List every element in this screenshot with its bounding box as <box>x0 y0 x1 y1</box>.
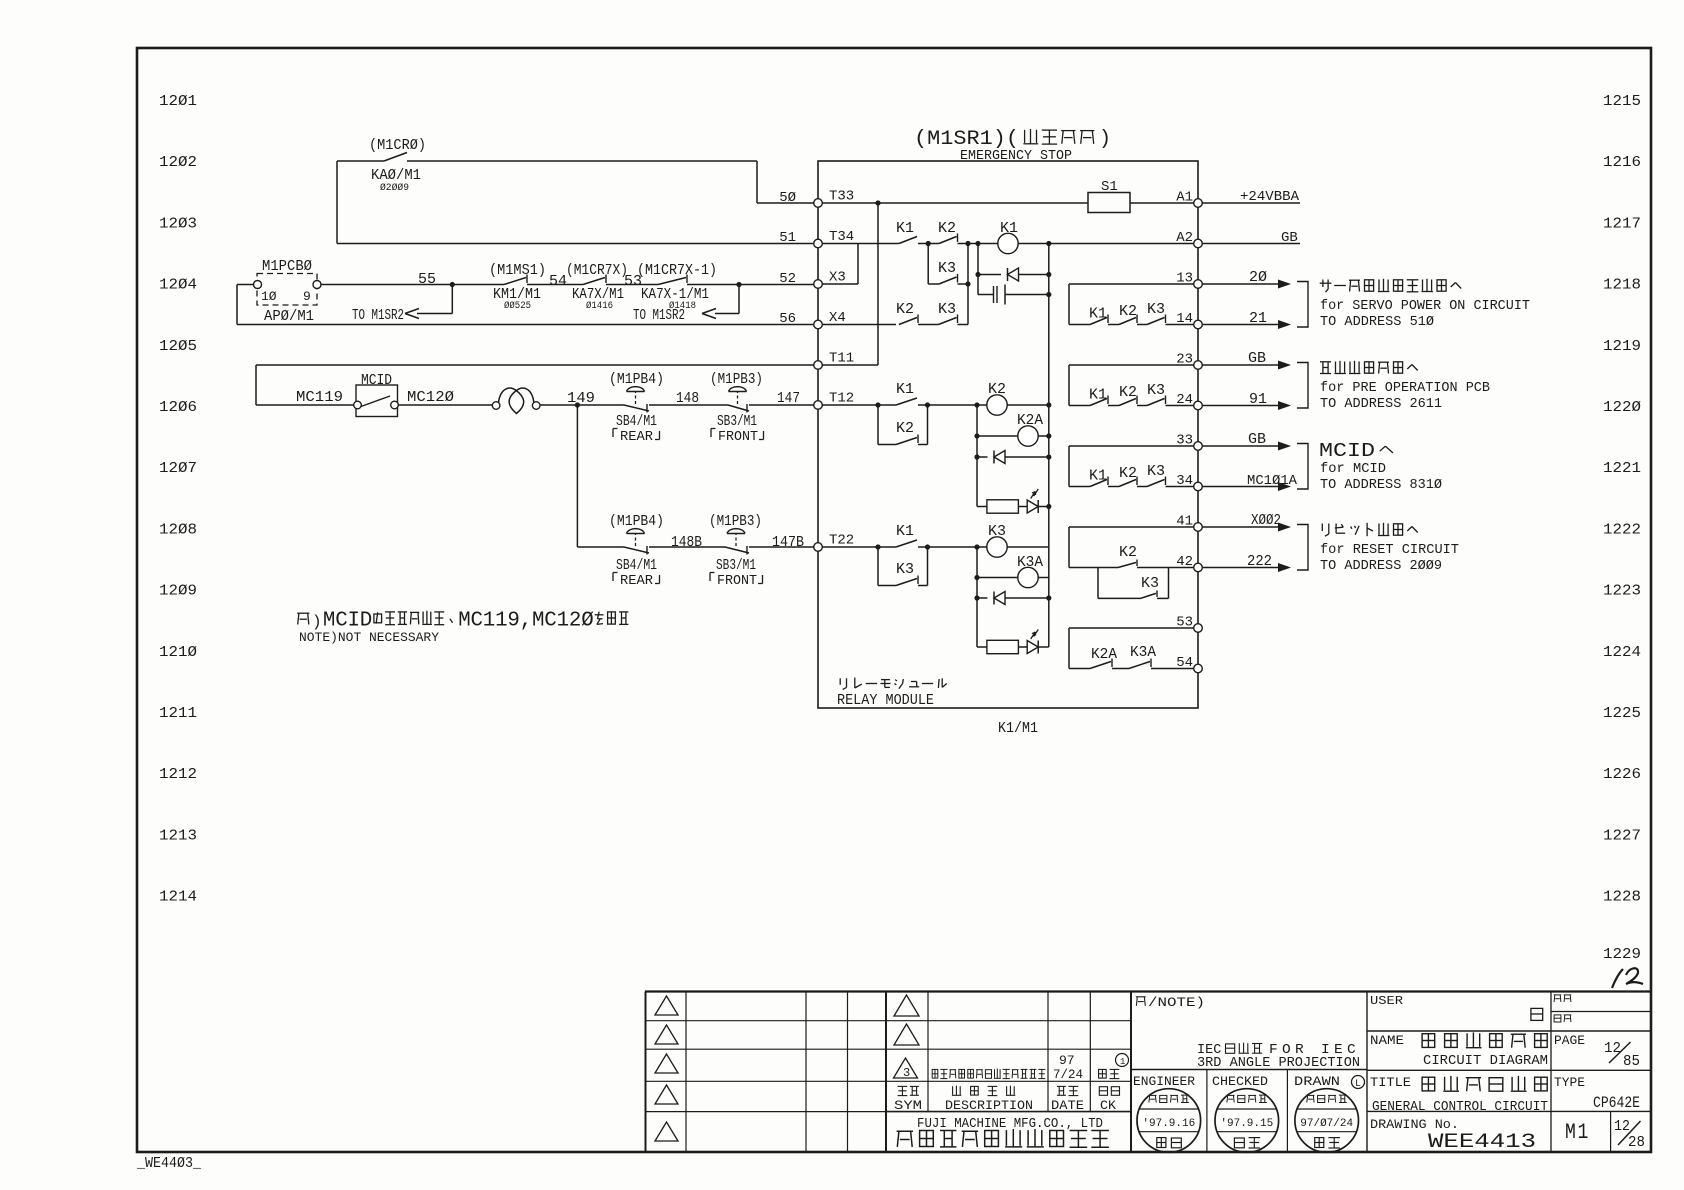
svg-text:1224: 1224 <box>1603 644 1641 661</box>
svg-text:FRONT: FRONT <box>717 573 757 589</box>
svg-text:K1: K1 <box>896 381 914 398</box>
svg-text:97/Ø7/24: 97/Ø7/24 <box>1300 1118 1353 1130</box>
svg-text:1216: 1216 <box>1603 154 1641 171</box>
svg-text:1212: 1212 <box>159 766 197 783</box>
contact K1 T22 <box>896 540 917 547</box>
wire S1 to A1 <box>1130 202 1194 204</box>
terminal A1 <box>1194 199 1203 208</box>
svg-text:_WE44Ø3_: _WE44Ø3_ <box>136 1155 202 1172</box>
svg-text:1228: 1228 <box>1603 889 1641 906</box>
label REAR upper <box>613 429 618 438</box>
svg-text:DATE: DATE <box>1051 1098 1084 1113</box>
svg-text:REAR: REAR <box>620 573 654 589</box>
svg-text:GENERAL CONTROL CIRCUIT: GENERAL CONTROL CIRCUIT <box>1372 1099 1548 1115</box>
svg-text:GB: GB <box>1248 350 1266 367</box>
svg-text:12Ø1: 12Ø1 <box>159 93 197 110</box>
contact KA0/M1 (M1CR0) <box>384 153 407 162</box>
svg-text:(M1PB3): (M1PB3) <box>709 513 762 530</box>
label servo jp <box>1320 279 1462 292</box>
wire T34-X3 link vertical <box>857 244 859 285</box>
contact group K1K2K3 rows 23/24 <box>1068 365 1070 406</box>
svg-text:TO ADDRESS 831Ø: TO ADDRESS 831Ø <box>1320 478 1442 493</box>
svg-text:MC12Ø: MC12Ø <box>407 389 454 406</box>
pushbutton SB4/M1 (M1PB4) lower <box>624 547 649 553</box>
svg-text:91: 91 <box>1249 391 1267 408</box>
svg-text:USER: USER <box>1370 994 1403 1008</box>
svg-text:148B: 148B <box>671 534 702 551</box>
header CK cell jp <box>1099 1087 1119 1096</box>
contact group K1K2K3 rows 13/14 <box>1068 284 1070 325</box>
svg-text:Ø: Ø <box>581 610 593 633</box>
svg-text:DRAWING No.: DRAWING No. <box>1370 1117 1459 1132</box>
svg-text:K3: K3 <box>938 301 956 318</box>
coil K1 <box>975 241 980 246</box>
label pre-operation jp <box>1320 361 1418 374</box>
svg-text:WEE4413: WEE4413 <box>1428 1131 1536 1154</box>
terminal T12 <box>814 401 823 410</box>
svg-text:9: 9 <box>303 289 311 304</box>
svg-text:K2: K2 <box>1119 465 1137 482</box>
svg-text:122Ø: 122Ø <box>1603 399 1641 416</box>
svg-text:CK: CK <box>1100 1098 1116 1113</box>
svg-text:SB3/M1: SB3/M1 <box>717 413 757 430</box>
revision table left half <box>645 992 647 1153</box>
wire KA0/M1 loop top <box>337 160 384 162</box>
svg-text:PAGE: PAGE <box>1554 1033 1585 1048</box>
svg-text:(M1PB4): (M1PB4) <box>609 371 664 388</box>
wire T33 row to S1 <box>822 202 1088 204</box>
pushbutton SB3/M1 (M1PB3) upper <box>728 405 749 411</box>
terminal 13 <box>1194 280 1203 289</box>
terminal 54 <box>1194 664 1203 673</box>
pushbutton SB3/M1 (M1PB3) lower <box>725 547 749 553</box>
arrow TO M1SR2 right <box>738 285 740 314</box>
svg-text:K3: K3 <box>1147 301 1165 318</box>
header DATE cell jp <box>1057 1086 1078 1095</box>
svg-text:1215: 1215 <box>1603 93 1641 110</box>
wire step down to T33 <box>756 161 758 203</box>
svg-text:1219: 1219 <box>1603 338 1641 355</box>
drawing no row lines <box>1610 1111 1612 1152</box>
diode K3 group <box>977 597 988 599</box>
svg-text:1222: 1222 <box>1603 521 1641 538</box>
node after K1 <box>926 241 931 246</box>
wire loop left + bottom to T34 <box>336 161 338 244</box>
label NOTE jp <box>1136 997 1146 1006</box>
svg-text:K3: K3 <box>1147 463 1165 480</box>
svg-text:K2: K2 <box>896 301 914 318</box>
svg-text:): ) <box>1099 128 1111 151</box>
svg-text:TYPE: TYPE <box>1554 1075 1585 1090</box>
svg-text:12Ø6: 12Ø6 <box>159 399 197 416</box>
svg-text:1214: 1214 <box>159 889 197 906</box>
terminal 53 <box>1194 624 1203 633</box>
header DESCRIPTION cell jp <box>952 1086 1015 1096</box>
revision table right half <box>927 992 929 1112</box>
terminal T22 <box>814 543 823 552</box>
svg-text:GB: GB <box>1248 431 1266 448</box>
svg-text:FUJI MACHINE MFG.CO., LTD: FUJI MACHINE MFG.CO., LTD <box>917 1116 1103 1132</box>
svg-text:1211: 1211 <box>159 705 197 722</box>
svg-text:3RD ANGLE PROJECTION: 3RD ANGLE PROJECTION <box>1197 1056 1360 1071</box>
svg-text:1227: 1227 <box>1603 827 1641 844</box>
svg-text:1229: 1229 <box>1603 946 1641 963</box>
svg-text:(M1SR1)(: (M1SR1)( <box>914 128 1019 151</box>
svg-text:X4: X4 <box>829 310 846 326</box>
svg-text:12: 12 <box>1614 1118 1630 1135</box>
svg-text:K2: K2 <box>896 420 914 437</box>
svg-text:TO M1SR2: TO M1SR2 <box>352 307 404 324</box>
svg-text:52: 52 <box>779 271 796 287</box>
stamp engineer <box>1137 1089 1201 1153</box>
label tono jp <box>1531 1008 1543 1020</box>
svg-text:12Ø3: 12Ø3 <box>159 215 197 232</box>
svg-text:T34: T34 <box>829 229 854 245</box>
svg-text:+24VBBA: +24VBBA <box>1240 189 1300 205</box>
svg-text:1: 1 <box>495 610 507 633</box>
svg-text:K3: K3 <box>988 523 1006 540</box>
contact group K2A/K3A rows 53/54 <box>1068 628 1070 669</box>
svg-text:1: 1 <box>1120 1057 1125 1067</box>
svg-text:SB4/M1: SB4/M1 <box>616 413 657 430</box>
terminal X3 <box>814 280 823 289</box>
svg-text:121Ø: 121Ø <box>159 644 197 661</box>
svg-text:K3: K3 <box>896 561 914 578</box>
label FRONT upper <box>711 429 716 438</box>
label sougou seigyo kairo jp <box>1422 1076 1547 1091</box>
wire MCID row left <box>256 404 354 406</box>
svg-text:EMERGENCY STOP: EMERGENCY STOP <box>960 149 1072 164</box>
wire X3 row from pin9 <box>321 284 504 286</box>
svg-text:9: 9 <box>507 610 519 633</box>
svg-text:12Ø2: 12Ø2 <box>159 154 197 171</box>
contact K1 on T34 row <box>899 237 917 244</box>
terminal T34 <box>814 239 823 248</box>
svg-text:TITLE: TITLE <box>1370 1075 1411 1090</box>
svg-text:1226: 1226 <box>1603 766 1641 783</box>
svg-text:56: 56 <box>779 311 796 327</box>
svg-text:TO ADDRESS 2ØØ9: TO ADDRESS 2ØØ9 <box>1320 559 1442 574</box>
svg-text:(M1CR7X-1): (M1CR7X-1) <box>637 262 717 279</box>
label denki kairo senzu jp <box>1422 1032 1547 1047</box>
snubber verticals <box>977 244 979 295</box>
wire T22 row left <box>577 546 624 548</box>
wire T11 row <box>256 364 818 366</box>
svg-text:12Ø4: 12Ø4 <box>159 277 197 294</box>
svg-text:T12: T12 <box>829 391 854 407</box>
svg-text:M1: M1 <box>1565 1120 1590 1145</box>
switch MCID box <box>356 385 398 417</box>
svg-text:K1: K1 <box>1089 387 1107 404</box>
contact K3 parallel T34 <box>939 277 957 284</box>
svg-text:K3A: K3A <box>1130 644 1156 661</box>
arrow out 222 <box>1202 567 1279 569</box>
wire GB out <box>1202 243 1300 245</box>
parallel K3 contact branch verticals <box>927 244 929 285</box>
revision row3 circled mark <box>1116 1054 1129 1067</box>
svg-text:12Ø5: 12Ø5 <box>159 338 197 355</box>
svg-text:21: 21 <box>1249 310 1267 327</box>
wire X4 row contacts <box>822 324 896 326</box>
node T12 junction <box>875 402 880 407</box>
svg-text:RELAY MODULE: RELAY MODULE <box>837 692 934 709</box>
svg-text:FRONT: FRONT <box>718 429 758 445</box>
svg-text:(M1PB3): (M1PB3) <box>710 371 763 388</box>
svg-text:K2A: K2A <box>1017 412 1043 429</box>
svg-text:): ) <box>312 613 322 631</box>
svg-text:K2: K2 <box>1119 303 1137 320</box>
svg-text:12Ø9: 12Ø9 <box>159 583 197 600</box>
node after K2 <box>965 241 970 246</box>
svg-text:K1/M1: K1/M1 <box>998 720 1038 737</box>
contact K2 on X4 row <box>899 318 917 325</box>
resistor + LED K3 group <box>987 640 1019 653</box>
svg-text:147B: 147B <box>772 534 804 551</box>
terminal A2 <box>1194 239 1203 248</box>
bracket servo group <box>1297 282 1308 328</box>
note japanese MCID remark <box>297 613 309 624</box>
svg-text:12Ø8: 12Ø8 <box>159 521 197 538</box>
bracket preop group <box>1297 363 1308 409</box>
contact K3 on X4 row <box>939 318 957 325</box>
svg-text:for MCID: for MCID <box>1320 462 1386 477</box>
terminal X4 <box>814 320 823 329</box>
svg-text:K3: K3 <box>1147 382 1165 399</box>
svg-text:M: M <box>532 610 544 633</box>
svg-text:K3A: K3A <box>1017 554 1043 571</box>
svg-text:Ø2ØØ9: Ø2ØØ9 <box>380 182 409 194</box>
header SYM cell jp <box>898 1086 919 1095</box>
revision triangle 3 <box>894 1058 918 1078</box>
svg-text:2: 2 <box>569 610 581 633</box>
svg-text:CIRCUIT DIAGRAM: CIRCUIT DIAGRAM <box>1423 1053 1548 1069</box>
svg-text:REAR: REAR <box>620 429 654 445</box>
contact K2 on T34 row <box>939 237 957 244</box>
svg-text:'97.9.15: '97.9.15 <box>1220 1118 1273 1130</box>
terminal T11 <box>814 361 823 370</box>
svg-text:Ø1416: Ø1416 <box>586 300 613 312</box>
coil K2A <box>976 405 978 507</box>
svg-text:CHECKED: CHECKED <box>1212 1074 1268 1089</box>
user cell lines <box>1367 1030 1651 1032</box>
terminal 34 <box>1194 482 1203 491</box>
terminal 33 <box>1194 442 1203 451</box>
svg-text:K1: K1 <box>896 523 914 540</box>
svg-text:M1PCBØ: M1PCBØ <box>262 258 312 275</box>
svg-text:1225: 1225 <box>1603 705 1641 722</box>
svg-text:C: C <box>471 610 483 633</box>
contact K1 T12 <box>896 398 917 405</box>
svg-text:SB4/M1: SB4/M1 <box>616 557 657 574</box>
capacitor snubber K1 <box>978 294 993 296</box>
svg-text:NOTE)NOT NECESSARY: NOTE)NOT NECESSARY <box>299 630 439 645</box>
svg-text:51: 51 <box>779 230 796 246</box>
diode K2 group <box>977 456 988 458</box>
svg-text:T22: T22 <box>829 533 854 549</box>
connector M1PCB0 dashed box <box>257 274 317 306</box>
terminal 24 <box>1194 401 1203 410</box>
svg-text:SYM: SYM <box>894 1098 922 1113</box>
svg-text:K1: K1 <box>1000 220 1018 237</box>
svg-text:for RESET CIRCUIT: for RESET CIRCUIT <box>1320 543 1459 558</box>
svg-text:55: 55 <box>418 271 436 288</box>
node T33 junction <box>875 200 880 205</box>
revision triangles left <box>655 996 678 1015</box>
pushbutton SB4/M1 (M1PB4) upper <box>624 405 649 411</box>
svg-text:DESCRIPTION: DESCRIPTION <box>945 1098 1033 1113</box>
node 149 junction <box>575 402 580 407</box>
arrow TO M1SR2 left <box>451 285 453 314</box>
svg-text:K3: K3 <box>938 260 956 277</box>
drawn circled L <box>1352 1076 1365 1089</box>
svg-text:CP642E: CP642E <box>1593 1094 1640 1112</box>
svg-text:147: 147 <box>777 390 800 407</box>
svg-text:149: 149 <box>567 390 595 407</box>
wire vertical T33 junction down to T11 <box>877 203 879 365</box>
svg-text:MCID: MCID <box>361 372 392 389</box>
svg-text:1217: 1217 <box>1603 215 1641 232</box>
svg-text:T33: T33 <box>829 189 854 205</box>
handwritten page mark 12 <box>1612 969 1623 988</box>
svg-text:K2: K2 <box>1119 544 1137 561</box>
wire pigtail to 149 node <box>540 404 624 406</box>
svg-text:MCID: MCID <box>1319 440 1375 462</box>
contact group K1K2K3 rows 33/34 <box>1068 446 1070 487</box>
arrow out X002 <box>1202 526 1279 528</box>
maker name jp fuji kikai seizo kk <box>897 1129 1109 1147</box>
coil K3A <box>976 547 978 647</box>
svg-text:DRAWN: DRAWN <box>1294 1074 1340 1089</box>
svg-text:K1: K1 <box>1089 306 1107 323</box>
contact KM1/M1 (M1MS1) <box>504 278 526 285</box>
svg-text:(M1CRØ): (M1CRØ) <box>369 137 426 154</box>
wire T34 row start <box>822 243 858 245</box>
parallel K2 contact branch <box>877 405 879 445</box>
contact group K2/K3 rows 41/42 <box>1068 527 1070 568</box>
wire pin10 left stub <box>237 284 254 286</box>
svg-text:TO ADDRESS 2611: TO ADDRESS 2611 <box>1320 397 1442 412</box>
wire T12 row <box>822 404 896 406</box>
label seiban jp <box>1554 1015 1571 1022</box>
svg-text:MC119: MC119 <box>296 389 343 406</box>
revision row3 CK name jp <box>1099 1069 1120 1078</box>
svg-text:TO ADDRESS 51Ø: TO ADDRESS 51Ø <box>1320 315 1434 330</box>
svg-text:K3: K3 <box>1141 575 1159 592</box>
arrow out 91 <box>1202 405 1279 407</box>
svg-text:97: 97 <box>1059 1053 1075 1068</box>
svg-text:K2: K2 <box>938 220 956 237</box>
svg-text:K1: K1 <box>1089 468 1107 485</box>
terminal 42 <box>1194 563 1203 572</box>
svg-text:KAØ/M1: KAØ/M1 <box>371 167 421 184</box>
svg-text:1Ø: 1Ø <box>261 289 277 304</box>
wire +24VBBA <box>1202 202 1300 204</box>
svg-text:TO M1SR2: TO M1SR2 <box>633 307 685 324</box>
svg-text:12Ø7: 12Ø7 <box>159 460 197 477</box>
svg-text:K2: K2 <box>1119 384 1137 401</box>
wire MCID to pigtail <box>398 404 492 406</box>
svg-text:MC1Ø1A: MC1Ø1A <box>1247 473 1298 489</box>
terminal T33 <box>814 199 823 208</box>
svg-text:28: 28 <box>1628 1134 1645 1151</box>
svg-text:54: 54 <box>549 273 567 290</box>
svg-text:NAME: NAME <box>1370 1033 1404 1048</box>
svg-text:K2A: K2A <box>1091 646 1117 663</box>
svg-text:S1: S1 <box>1101 179 1118 195</box>
title block top line <box>645 990 1651 992</box>
svg-text:C: C <box>544 610 556 633</box>
wire M1PCB0 to X4 rail vertical <box>236 285 238 325</box>
svg-text:'97.9.16: '97.9.16 <box>1142 1118 1195 1130</box>
revision triangles right <box>894 995 919 1016</box>
svg-text:5Ø: 5Ø <box>779 190 796 206</box>
svg-text:SB3/M1: SB3/M1 <box>716 557 756 574</box>
svg-text:(M1CR7X): (M1CR7X) <box>566 262 628 279</box>
svg-text:222: 222 <box>1247 553 1272 570</box>
svg-text:T11: T11 <box>829 351 854 367</box>
svg-text:(M1PB4): (M1PB4) <box>609 513 664 530</box>
svg-text:K1: K1 <box>896 220 914 237</box>
label FRONT lower <box>710 573 715 582</box>
svg-text:for PRE OPERATION PCB: for PRE OPERATION PCB <box>1320 381 1490 396</box>
terminal 41 <box>1194 523 1203 532</box>
wire left vertical T11-MCID <box>255 365 257 405</box>
resistor + LED K2 group <box>987 500 1019 513</box>
diode snubber K1 <box>978 274 1001 276</box>
title row lines <box>1367 1110 1651 1112</box>
svg-text:3: 3 <box>903 1066 910 1080</box>
svg-text:1223: 1223 <box>1603 583 1641 600</box>
svg-text:L: L <box>1355 1079 1361 1090</box>
wire 149 down to T22 row <box>576 405 578 547</box>
wire T22 row inside module <box>822 546 896 548</box>
bracket reset group <box>1297 525 1308 571</box>
terminal circle pin9 <box>313 281 321 289</box>
name row lines <box>1367 1069 1651 1071</box>
switch S1 box <box>1088 193 1130 213</box>
svg-text:1: 1 <box>483 610 495 633</box>
svg-text:1213: 1213 <box>159 827 197 844</box>
svg-text:APØ/M1: APØ/M1 <box>264 308 314 325</box>
svg-text:/NOTE): /NOTE) <box>1148 995 1205 1010</box>
arrow out GB 33 <box>1202 445 1279 447</box>
svg-text:,: , <box>520 610 532 633</box>
stamp drawn <box>1295 1089 1359 1153</box>
arrow out MC101A <box>1202 486 1279 488</box>
svg-text:K2: K2 <box>988 381 1006 398</box>
svg-text:ØØ525: ØØ525 <box>504 300 531 312</box>
arrow out 21 <box>1202 324 1279 326</box>
arrow out 20 <box>1202 283 1279 285</box>
svg-text:1221: 1221 <box>1603 460 1641 477</box>
svg-text:148: 148 <box>676 390 699 407</box>
terminal 14 <box>1194 320 1203 329</box>
svg-text:M: M <box>458 610 470 633</box>
bracket mcid group <box>1297 444 1308 490</box>
label RELAY MODULE jp <box>840 678 947 690</box>
svg-text:X3: X3 <box>829 270 846 286</box>
stamp checked <box>1215 1089 1279 1153</box>
svg-text:GB: GB <box>1281 230 1298 246</box>
wire X4 rail <box>237 324 818 326</box>
terminal 23 <box>1194 361 1203 370</box>
label bunban jp <box>1554 995 1572 1002</box>
svg-text:for SERVO POWER ON CIRCUIT: for SERVO POWER ON CIRCUIT <box>1320 299 1530 314</box>
svg-text:(M1MS1): (M1MS1) <box>489 262 546 279</box>
terminal circle pin10 <box>254 281 262 289</box>
label REAR lower <box>613 573 618 582</box>
pigtail loop symbol <box>492 402 500 410</box>
